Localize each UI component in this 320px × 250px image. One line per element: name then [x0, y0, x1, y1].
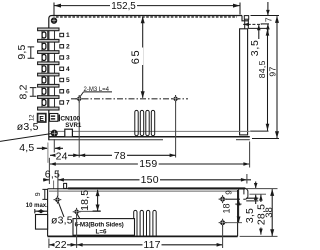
svg-text:3,5: 3,5 [249, 39, 261, 56]
side vent slots [134, 210, 157, 236]
dim 9,5 [28, 47, 35, 58]
dim 28,5 [259, 194, 263, 234]
right side flange bar [240, 29, 248, 135]
svg-text:65: 65 [130, 49, 142, 64]
M3 hole left [75, 95, 83, 103]
bottom edge main line [49, 136, 250, 138]
svg-text:3,5: 3,5 [244, 208, 256, 223]
dim 78 [79, 154, 175, 158]
dim 18 [237, 189, 241, 222]
svg-text:E: E [39, 116, 44, 123]
terminal numbers 1-7 [66, 32, 70, 107]
dim 22 [49, 215, 77, 249]
CN100 label [58, 115, 60, 122]
corner screw top-left [51, 18, 56, 23]
centerline [71, 98, 188, 100]
extension lines below M3 holes [78, 101, 80, 158]
dim 38 [270, 189, 274, 236]
dim 150 + 6,5 chain line [43, 171, 251, 197]
svg-text:18,5: 18,5 [79, 190, 91, 211]
svg-text:3: 3 [66, 55, 70, 62]
bottom lip line left [49, 139, 163, 141]
dim 3,5 (top right) [257, 10, 261, 39]
terminal block side [36, 215, 48, 230]
svg-text:7: 7 [66, 100, 70, 107]
right side holes [219, 195, 227, 203]
svg-text:5: 5 [66, 77, 70, 84]
ø3,5 hole side view [54, 196, 62, 204]
cover corner tab top-right [244, 16, 248, 20]
dim 3,5 (side right) [254, 182, 258, 205]
svg-text:12: 12 [29, 114, 35, 121]
svg-text:6: 6 [66, 88, 70, 95]
bottom lip line right [236, 139, 250, 141]
dim 7 (top right) [261, 2, 270, 33]
svg-text:22: 22 [55, 239, 67, 250]
svg-text:10 max.: 10 max. [26, 203, 48, 209]
svg-text:9: 9 [35, 192, 42, 196]
svg-text:1: 1 [66, 32, 70, 39]
dim 117 [77, 226, 223, 248]
svg-text:150: 150 [141, 174, 159, 186]
dim 18,5 [93, 190, 101, 211]
terminal separator bars [38, 28, 59, 110]
svg-text:7: 7 [264, 17, 274, 22]
cover dashed edge (top) [56, 16, 237, 18]
M3 hole right [172, 95, 180, 103]
dim 9 (side left) [42, 189, 47, 199]
corner screw bottom-left [51, 130, 57, 136]
dim 152,5 [54, 3, 240, 17]
svg-text:4: 4 [66, 66, 70, 73]
SVR1 box [65, 129, 73, 137]
top view case outline [49, 16, 249, 141]
svg-text:24: 24 [56, 150, 68, 162]
svg-text:8,2: 8,2 [18, 84, 30, 99]
right ext lines [225, 189, 277, 237]
svg-text:97: 97 [267, 66, 277, 76]
dim 24 [50, 154, 79, 158]
M3 side hole 1 [73, 208, 81, 216]
dim 159 [49, 142, 249, 185]
dim 65 [141, 16, 145, 98]
E terminal box [38, 114, 46, 123]
svg-text:84,5: 84,5 [257, 60, 267, 78]
dim 97 [275, 16, 279, 138]
terminal screws [42, 32, 46, 106]
svg-text:18: 18 [222, 203, 232, 213]
svg-text:9,5: 9,5 [16, 44, 28, 59]
dim 8,2 [30, 88, 37, 97]
terminal pins [60, 33, 64, 104]
svg-text:L=6: L=6 [96, 228, 108, 235]
ext lines right [249, 16, 280, 139]
svg-text:117: 117 [143, 239, 160, 250]
vent slots top view [135, 110, 155, 135]
connector CN100 symbol [50, 114, 58, 122]
cover hook top-right [243, 188, 245, 195]
side view outline [36, 183, 259, 236]
small tab on top-left [64, 183, 67, 188]
svg-text:152,5: 152,5 [111, 1, 136, 12]
svg-text:4,5: 4,5 [19, 142, 34, 154]
svg-text:SVR1: SVR1 [65, 122, 82, 129]
svg-text:38: 38 [264, 207, 275, 218]
dim 9 (side right) [226, 198, 240, 200]
dim 84,5 [266, 29, 270, 131]
svg-text:ø3,5: ø3,5 [17, 121, 39, 133]
terminal block body lines [42, 29, 55, 109]
dashed ref line at corner [243, 23, 262, 25]
svg-text:159: 159 [139, 158, 157, 170]
svg-text:78: 78 [114, 150, 126, 162]
bottom edge inner line [49, 130, 250, 132]
6-M3 label box [73, 219, 135, 236]
svg-text:2: 2 [66, 43, 70, 50]
svg-text:ø3,5: ø3,5 [51, 215, 73, 227]
svg-text:9: 9 [225, 190, 234, 195]
